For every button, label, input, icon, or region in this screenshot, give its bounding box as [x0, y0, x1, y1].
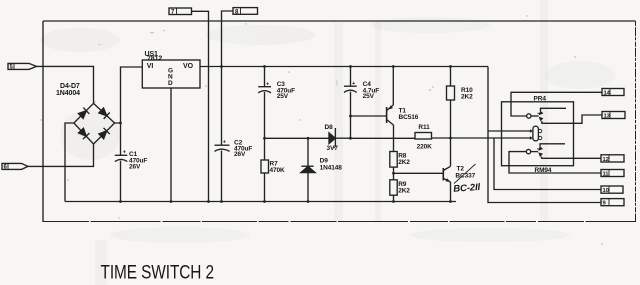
- junction C2 at ground rail: [220, 200, 223, 203]
- wire connector 14 to PR4 common: [511, 92, 602, 116]
- junction D9 at ground rail: [307, 200, 310, 203]
- svg-text:220K: 220K: [417, 144, 433, 151]
- scan speckle noise: [40, 15, 603, 245]
- svg-text:D4-D7: D4-D7: [60, 83, 80, 90]
- svg-text:25V: 25V: [363, 93, 375, 100]
- wire T1 base: [351, 115, 387, 117]
- reference label T1 BC516: [399, 108, 419, 122]
- connector 8 (+12V pin): [233, 8, 258, 16]
- capacitor C2: [215, 67, 230, 202]
- svg-text:2K2: 2K2: [398, 159, 410, 166]
- diode D6 (bottom-left arm): [78, 128, 90, 140]
- wire connector 7 to ground rail: [192, 11, 209, 201]
- svg-text:TIME SWITCH 2: TIME SWITCH 2: [101, 262, 215, 284]
- connector 13: [602, 112, 625, 120]
- reference label US1 7812: [145, 51, 163, 63]
- connector 7 (ground pin): [169, 8, 192, 16]
- wire +12V to relay coil top: [488, 130, 531, 132]
- capacitor C3: [258, 67, 271, 139]
- capacitor C1: [115, 123, 128, 202]
- wire connector 5 to bridge AC node: [37, 66, 94, 103]
- transistor T1 BC516: [387, 67, 394, 126]
- paper mottling: [40, 17, 615, 243]
- wire +12V rail down to connector 9: [488, 67, 601, 203]
- svg-text:13: 13: [604, 113, 611, 119]
- svg-text:2K2: 2K2: [398, 187, 410, 194]
- value label R8 2K2: [398, 153, 410, 167]
- svg-text:+: +: [266, 81, 269, 87]
- svg-text:+: +: [223, 140, 226, 146]
- svg-text:+: +: [352, 81, 355, 87]
- svg-text:VI: VI: [147, 63, 154, 70]
- svg-text:BC-2Il: BC-2Il: [453, 182, 481, 195]
- connector 11: [601, 170, 624, 178]
- connector 9: [601, 199, 624, 207]
- svg-text:1N4148: 1N4148: [320, 164, 343, 171]
- svg-text:3V7: 3V7: [327, 145, 339, 152]
- node T1 base junction: [349, 115, 352, 118]
- value label D8 3V7: [325, 124, 339, 152]
- junction connector 7 wire at ground rail: [207, 200, 210, 203]
- relay contact PR4 (changeover): [527, 108, 602, 123]
- svg-text:PR4: PR4: [534, 96, 547, 103]
- wire bridge negative node to ground rail: [65, 123, 74, 202]
- junction U1 GND at ground rail: [170, 200, 173, 203]
- svg-text:BC516: BC516: [399, 114, 419, 121]
- resistor R7: [261, 138, 269, 201]
- wire T1 collector to R8: [393, 125, 395, 152]
- value label C4 4.7uF 25V: [363, 81, 380, 100]
- value label R10 2K2: [461, 87, 473, 101]
- wire T2 collector node down to connector 10: [494, 138, 601, 190]
- ground rail (0V net): [65, 201, 456, 203]
- wire connector 8 to +12V rail: [222, 11, 234, 67]
- border frame of schematic: [43, 21, 636, 222]
- svg-text:VO: VO: [183, 63, 194, 70]
- svg-text:12: 12: [603, 157, 609, 163]
- svg-text:+: +: [123, 150, 126, 156]
- value label C1 470uF 26V: [129, 151, 147, 170]
- wire T2 base: [394, 172, 444, 174]
- svg-text:7812: 7812: [147, 56, 162, 63]
- bridge rectifier D4-D7 diamond: [74, 103, 115, 144]
- value label C2 470uF 26V: [234, 139, 252, 158]
- diode D5 (top-right arm): [98, 107, 110, 119]
- relay outline box: [502, 102, 574, 166]
- resistor R11: [351, 133, 495, 140]
- resistor R8: [390, 152, 397, 168]
- resistor R9: [390, 180, 397, 202]
- svg-text:D: D: [168, 80, 173, 87]
- junction C3 at +12V rail: [263, 65, 266, 68]
- junction R10 at +12V rail: [449, 65, 452, 68]
- resistor R10: [447, 67, 455, 167]
- svg-text:11: 11: [603, 171, 610, 177]
- wire connector 11 to RM94 common: [509, 152, 601, 173]
- transistor T2 BC337: [443, 166, 450, 201]
- junction R11 with T2 collector line: [449, 137, 452, 140]
- wire zener node down: [350, 116, 352, 138]
- junction T1 emitter at +12V rail: [392, 65, 395, 68]
- capacitor C4: [344, 67, 357, 117]
- value label D4-D7 1N4004: [56, 83, 80, 97]
- junction R7 at ground rail: [263, 200, 266, 203]
- +12V rail from U1 VO: [200, 66, 488, 68]
- svg-text:14: 14: [604, 90, 611, 96]
- node zener reference rail junction: [263, 137, 266, 140]
- wire U1 GND pin to ground rail: [170, 88, 172, 202]
- wire C3/R7 node to D9/D8 node: [265, 137, 309, 139]
- connector 14: [602, 89, 624, 97]
- wire R8 to R9: [393, 167, 395, 180]
- connector 12: [601, 155, 624, 163]
- diode D7 (bottom-right arm): [98, 128, 110, 140]
- reference label T2 BC337 (struck through): [454, 164, 476, 184]
- connector 5 (AC input terminal): [8, 63, 37, 70]
- svg-text:25V: 25V: [277, 93, 289, 100]
- regulator U1 7812: [142, 60, 200, 88]
- zener diode D8: [308, 128, 351, 148]
- value label D9 1N4148: [320, 158, 343, 172]
- svg-text:D8: D8: [325, 124, 334, 131]
- junction C4 at +12V rail: [349, 65, 352, 68]
- wire connector 6 to bridge AC node: [28, 144, 94, 166]
- relay coil: [530, 126, 542, 141]
- node T2 base junction: [392, 172, 395, 175]
- relay contact RM94 (changeover): [526, 144, 601, 159]
- diode D4 (top-left arm): [78, 108, 90, 120]
- svg-text:2K2: 2K2: [461, 94, 473, 101]
- junction connector 8 at +12V rail: [220, 65, 223, 68]
- node D9 top junction: [307, 137, 310, 140]
- svg-text:26V: 26V: [129, 163, 141, 170]
- svg-text:1N4004: 1N4004: [56, 90, 80, 97]
- connector 10: [601, 186, 623, 194]
- value label R7 470K: [270, 161, 286, 175]
- node bridge positive output: [119, 122, 122, 125]
- wire coil bottom / T2 collector node: [494, 137, 531, 139]
- wire bridge positive node to U1 VI: [115, 67, 143, 123]
- diode D9: [301, 138, 315, 201]
- junction R9 at ground rail: [392, 200, 395, 203]
- junction T2 emitter at ground rail: [449, 200, 452, 203]
- light photocopy streaks: [95, 0, 548, 285]
- node D8 cathode junction: [349, 137, 352, 140]
- svg-text:10: 10: [603, 188, 609, 194]
- svg-text:470K: 470K: [270, 167, 286, 174]
- value label C3 470uF 25V: [277, 81, 295, 100]
- svg-text:R11: R11: [418, 124, 430, 131]
- svg-text:26V: 26V: [234, 151, 246, 158]
- connector 6 (AC input terminal): [2, 163, 28, 170]
- junction C1 to ground: [119, 200, 122, 203]
- value label R9 2K2: [398, 181, 410, 195]
